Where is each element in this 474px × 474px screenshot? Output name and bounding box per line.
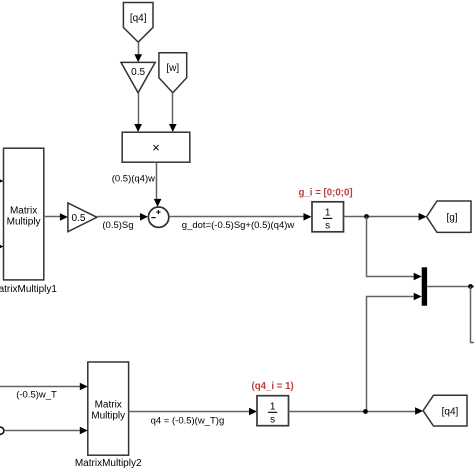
mux block	[422, 267, 427, 305]
wire product to sum	[154, 162, 162, 207]
wire into MM2 input2	[4, 427, 88, 435]
sum junction circle	[148, 207, 168, 227]
svg-text:(0.5)(q4)w: (0.5)(q4)w	[112, 174, 155, 185]
wire [w] to product	[169, 93, 177, 132]
wire q4 branch up to mux input2	[367, 293, 422, 412]
gain 0.5 (down)	[121, 62, 155, 92]
svg-text:MatrixMultiply2: MatrixMultiply2	[75, 458, 142, 469]
wire MM2 output to integrator2	[129, 408, 257, 416]
svg-text:s: s	[270, 415, 275, 426]
wire integrator1 to [g]	[344, 213, 427, 221]
wire gain2 to sum	[97, 213, 148, 221]
junction node q4	[363, 409, 368, 414]
wire gain0.5 to product	[134, 93, 142, 132]
svg-text:Matrix: Matrix	[10, 206, 37, 217]
from tag [w]	[159, 53, 187, 93]
junction node g	[364, 214, 369, 219]
svg-text:[w]: [w]	[166, 63, 179, 74]
product block	[122, 132, 190, 162]
wire mux output to right edge	[427, 286, 474, 288]
svg-text:0.5: 0.5	[72, 213, 86, 224]
wire mux-out branch down and out right	[471, 287, 474, 343]
wire MM1 to gain2	[44, 213, 68, 221]
open connector circle at left edge	[0, 427, 4, 434]
wire into MM2 input1	[0, 383, 88, 391]
MM1 input port arrow 2	[0, 243, 4, 251]
svg-text:(-0.5)w_T: (-0.5)w_T	[16, 390, 57, 401]
block MatrixMultiply2	[88, 362, 129, 455]
svg-text:[g]: [g]	[446, 213, 457, 224]
svg-text:q4 = (-0.5)(w_T)g: q4 = (-0.5)(w_T)g	[151, 416, 225, 427]
from tag [q4] top	[123, 3, 153, 43]
integrator 1/s (q4)	[257, 396, 289, 426]
svg-text:[q4]: [q4]	[442, 407, 459, 418]
svg-text:(0.5)Sg: (0.5)Sg	[102, 220, 133, 231]
svg-text:MatrixMultiply1: MatrixMultiply1	[0, 284, 57, 295]
wire integrator2 to [q4]	[289, 407, 424, 415]
svg-text:[q4]: [q4]	[130, 13, 147, 24]
svg-text:s: s	[325, 221, 330, 232]
svg-text:(q4_i = 1): (q4_i = 1)	[252, 381, 294, 392]
wire g branch down to mux input1	[367, 217, 422, 281]
wire from [q4] to gain0.5 down	[134, 42, 142, 62]
goto tag [g]	[427, 201, 471, 232]
gain 0.5 (right)	[68, 203, 97, 232]
svg-text:Multiply: Multiply	[91, 411, 125, 422]
svg-text:Multiply: Multiply	[7, 217, 41, 228]
svg-text:1: 1	[270, 402, 276, 413]
wire sum to integrator1	[169, 213, 312, 221]
integrator 1/s (g)	[312, 202, 344, 232]
svg-text:g_i = [0;0;0]: g_i = [0;0;0]	[299, 188, 353, 199]
goto tag [q4] bottom	[423, 395, 467, 426]
svg-text:Matrix: Matrix	[95, 400, 122, 411]
block MatrixMultiply1	[4, 148, 44, 280]
svg-text:g_dot=(-0.5)Sg+(0.5)(q4)w: g_dot=(-0.5)Sg+(0.5)(q4)w	[182, 220, 295, 231]
junction node mux out	[468, 284, 473, 289]
MM1 input port arrow 1	[0, 177, 4, 185]
svg-text:×: ×	[152, 140, 160, 155]
svg-text:1: 1	[325, 208, 331, 219]
svg-text:0.5: 0.5	[131, 67, 145, 78]
